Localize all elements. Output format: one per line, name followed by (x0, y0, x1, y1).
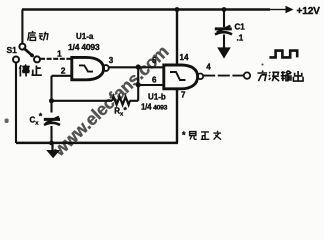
label 方波输出 glyph 方 (258, 71, 268, 82)
wire: U1-b pin14 to rail (176, 10, 178, 65)
wire: feedback line to Rx (52, 100, 113, 102)
ground (below Cx) (46, 150, 60, 158)
capacitor C1 (215, 26, 232, 35)
scan speck left edge (5, 119, 9, 124)
wire: Rx right to riser (130, 100, 139, 102)
svg-text:*: * (182, 130, 186, 140)
wire: ground stub below rail at Cx (51, 143, 53, 151)
label 方波输出 glyph 波 (269, 72, 280, 81)
power arrow +12V (286, 6, 294, 13)
svg-text:14: 14 (180, 53, 189, 62)
label 方波输出 glyph 输 (281, 71, 292, 82)
wire: switch start contact up to rail (21, 10, 23, 44)
label 见正文 glyph 见 (190, 132, 197, 140)
node: junction riser/pin6 (136, 82, 141, 87)
U1-b hysteresis symbol (170, 72, 186, 80)
capacitor Cx (44, 117, 60, 125)
wire: C1 branch from rail (223, 10, 225, 28)
wire: C1 stem to ground (223, 35, 225, 48)
svg-text:4: 4 (206, 63, 211, 72)
wire: Cx to bottom rail (50, 126, 52, 143)
node: junction rail/C1 (222, 7, 227, 12)
node: junction rail/pin14 (175, 7, 180, 12)
U1-a hysteresis symbol (79, 65, 93, 71)
U1-b output bubble (198, 74, 204, 80)
wire: pin2 node down to Cx node (50, 76, 52, 113)
svg-text:3: 3 (109, 56, 114, 65)
label 停止 (stop) glyph 止 (31, 65, 41, 75)
label 见正文 glyph 正 (201, 132, 209, 139)
svg-text:7: 7 (181, 91, 186, 100)
wire: riser to pin5/6 node (137, 67, 139, 101)
resistor Rx zigzag (112, 97, 130, 105)
wire: +12V top rail (22, 8, 270, 11)
wire: pin4 output line (203, 75, 243, 77)
wire: stop contact down left side (15, 62, 17, 143)
switch S1 (13, 44, 40, 63)
svg-text:5: 5 (152, 56, 157, 65)
wire: pin2 stub (52, 75, 72, 77)
svg-text:1: 1 (57, 48, 62, 58)
wire: U1-b pin7 down to bottom rail (176, 89, 178, 143)
label 方波输出 glyph 出 (293, 71, 303, 81)
node: junction pin3/pin5 riser (136, 64, 141, 69)
svg-text:U1-b: U1-b (148, 93, 166, 102)
node: junction feedback/Cx (49, 98, 54, 103)
label 启动 (start) glyph 启 (28, 31, 36, 40)
svg-text:U1-a: U1-a (76, 32, 94, 41)
op-amp U1-b NAND gate body (164, 65, 198, 89)
svg-text:2: 2 (61, 66, 66, 76)
wire: pin6 line (138, 84, 164, 86)
node: junction Cx/bottom rail (49, 141, 54, 146)
output terminal circle (244, 72, 250, 78)
U1-a output bubble (103, 65, 109, 71)
ground (below C1) (217, 47, 231, 58)
label 停止 (stop) glyph 停 (19, 65, 29, 77)
label 启动 (start) glyph 动 (39, 32, 48, 41)
svg-text:1/4 4093: 1/4 4093 (141, 103, 168, 112)
svg-text:C1: C1 (235, 23, 246, 32)
scan speck near output line (262, 64, 264, 66)
label 见正文 glyph 文 (213, 131, 221, 140)
svg-text:.1: .1 (237, 33, 244, 42)
wire: pin3 to pin5 (109, 66, 164, 68)
svg-text:+12V: +12V (297, 6, 321, 17)
svg-text:1/4 4093: 1/4 4093 (68, 42, 100, 52)
wire: pin1 from switch pole (40, 58, 72, 60)
svg-text:6: 6 (152, 76, 157, 85)
wire: bottom ground rail (16, 142, 178, 145)
svg-text:S1: S1 (7, 45, 18, 55)
square wave icon (269, 51, 297, 58)
op-amp U1-a NAND gate body (72, 57, 104, 79)
